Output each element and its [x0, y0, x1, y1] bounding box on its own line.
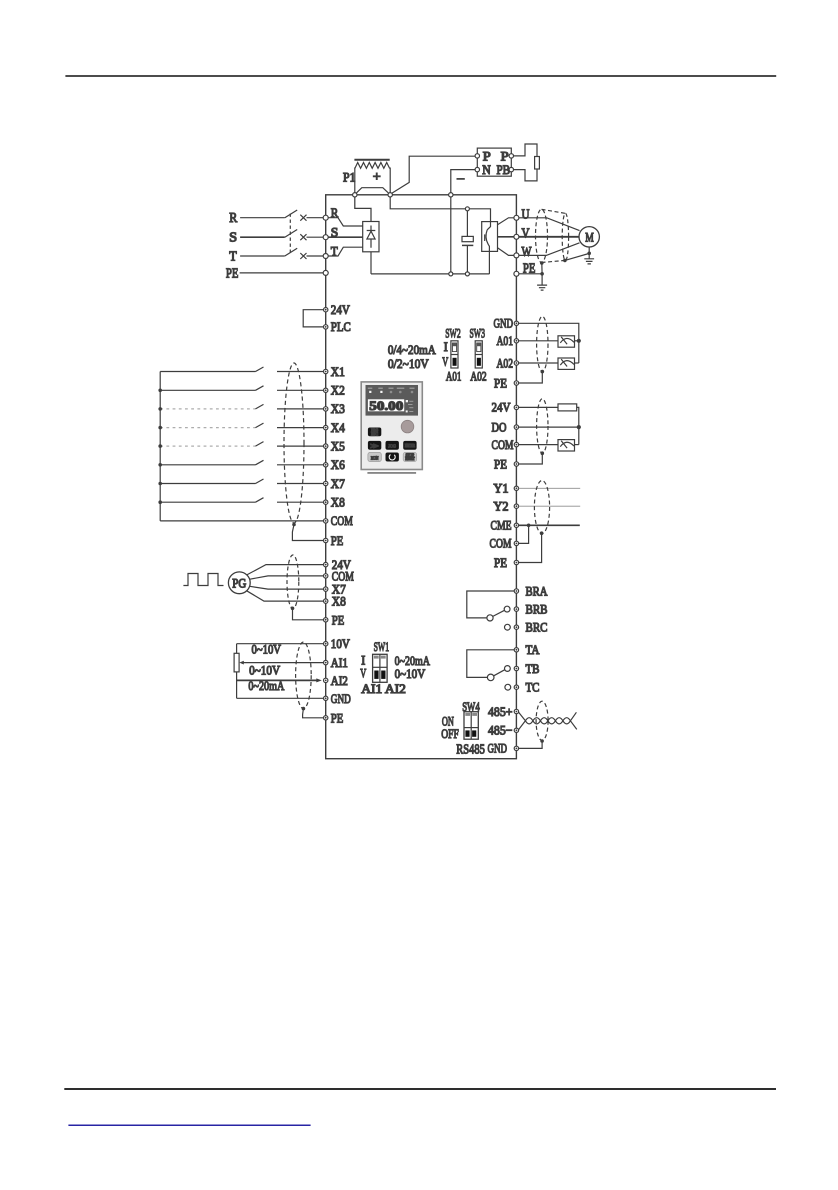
wire PG to X7 [250, 586, 324, 589]
meter DO [558, 440, 575, 451]
svg-text:TA: TA [526, 642, 541, 657]
terminal S [323, 235, 328, 240]
capacitor plate line [462, 244, 473, 246]
fuse mark T [300, 253, 306, 259]
terminal X5 [324, 444, 328, 448]
shield ellipse analog [296, 642, 312, 708]
svg-text:X1: X1 [331, 364, 345, 379]
potentiometer bottom lead [236, 672, 238, 698]
terminal COM right [514, 442, 518, 446]
SW3 DIP body [475, 341, 482, 368]
node P1 on bus [353, 193, 357, 197]
wire CME [519, 524, 580, 526]
header rule [65, 75, 776, 77]
junction motor ground [587, 252, 591, 256]
capacitor plate box [462, 236, 473, 241]
IGBT gate bar [484, 234, 486, 241]
shield ellipse digital inputs [284, 363, 304, 523]
wire X4 faint [160, 427, 255, 429]
svg-text:0~20mA: 0~20mA [248, 678, 284, 693]
relay BR blade [493, 610, 505, 616]
svg-text:I: I [444, 339, 448, 354]
jumper bridge P1-plus [356, 188, 390, 194]
wire T to terminal [307, 255, 324, 257]
label minus [457, 178, 465, 180]
wire AI1 [243, 662, 324, 664]
terminal Y1 [514, 486, 518, 490]
terminal GND left [324, 696, 328, 700]
meter A01 [558, 336, 575, 347]
keypad shift button [368, 441, 381, 450]
shield drain to PE Y outputs [519, 533, 542, 562]
node capacitor on minus bus [465, 272, 469, 276]
brake resistor [535, 157, 540, 170]
svg-text:V: V [522, 226, 530, 241]
svg-text:A02: A02 [470, 368, 487, 383]
svg-text:0~10V: 0~10V [395, 666, 426, 681]
terminal GND right [514, 321, 518, 325]
svg-text:V: V [360, 665, 366, 680]
shield drain dot analog [302, 707, 306, 711]
SW2 DIP body [451, 341, 458, 368]
svg-text:S: S [229, 231, 237, 246]
wire PG to COM [250, 576, 324, 579]
reactor lead plus [389, 168, 391, 193]
svg-text:PE: PE [494, 555, 507, 570]
keypad STOP RESET button [403, 453, 416, 462]
wire A02 to meter [519, 362, 558, 364]
terminal CME [514, 523, 518, 527]
shield drain to PE and ground [541, 263, 543, 285]
terminal PE right2 [514, 381, 518, 385]
relay T fixed contact [505, 684, 511, 690]
keypad JOG button [386, 441, 399, 450]
wire rectifier plus output [355, 197, 371, 222]
svg-text:PG: PG [232, 575, 246, 590]
terminal X2 [324, 388, 328, 392]
rectifier bridge box [363, 222, 379, 252]
wire PG to 24V [247, 565, 324, 575]
wire X6 [160, 460, 323, 465]
shield dashed top link [542, 209, 566, 213]
svg-text:PE: PE [331, 533, 344, 548]
wire W to motor [519, 243, 580, 256]
SW4 DIP body [464, 712, 478, 740]
svg-text:BRA: BRA [526, 583, 548, 598]
SW4 bottom sliders [465, 730, 469, 736]
inverter main enclosure box [326, 195, 517, 759]
twisted pair crossings [525, 718, 570, 724]
svg-text:M: M [585, 230, 594, 245]
breaker blade T [285, 248, 297, 256]
shield drain to PE analog [303, 709, 324, 718]
jumper CME to COM [519, 525, 529, 543]
shield drain to GND 485 [519, 741, 543, 748]
shield ellipse DO group [537, 399, 548, 453]
svg-text:U: U [522, 207, 530, 222]
wire COM to meter [519, 444, 558, 446]
terminal X8 PG [324, 599, 328, 603]
stub meter DO [575, 444, 579, 446]
shield drain dot near motor [563, 259, 567, 263]
wire X3 faint [160, 408, 255, 410]
footer hyperlink underline [68, 1124, 310, 1126]
svg-text:TC: TC [526, 680, 540, 695]
wire S source [240, 236, 285, 238]
terminal AI2 [324, 678, 328, 682]
potentiometer body [234, 653, 239, 672]
potentiometer top lead [236, 644, 238, 654]
svg-text:X6: X6 [331, 457, 345, 472]
svg-text:SW1: SW1 [374, 639, 390, 654]
relay BR wire [467, 591, 514, 618]
terminal 485- [514, 728, 518, 732]
stub meter A01 [575, 340, 579, 342]
svg-text:JOG: JOG [388, 443, 396, 448]
DC reactor P1 winding [355, 163, 390, 169]
svg-text:PB: PB [497, 162, 511, 177]
fuse mark S [300, 234, 306, 240]
svg-text:TB: TB [526, 661, 540, 676]
svg-text:X5: X5 [331, 438, 345, 453]
svg-text:W: W [522, 245, 533, 260]
terminal BRB [514, 607, 518, 611]
svg-text:GND: GND [488, 741, 508, 756]
svg-text:Y2: Y2 [494, 499, 509, 514]
shield drain dot RS485 [540, 739, 544, 743]
wire PG to X8 [247, 591, 324, 601]
terminal X3 [324, 407, 328, 411]
wire Y2 [519, 505, 581, 507]
terminal R [323, 215, 328, 220]
keypad PRG ESC button [368, 428, 381, 437]
breaker blade S [285, 230, 297, 238]
relay T moving contact [505, 666, 511, 672]
keypad operator panel body [361, 382, 422, 470]
wire AI2 [237, 679, 317, 681]
svg-text:ENTER: ENTER [405, 443, 415, 448]
SW4 top cell marks [465, 713, 470, 716]
motor M [579, 227, 599, 247]
svg-text:COM: COM [490, 536, 512, 551]
svg-text:BRB: BRB [526, 601, 548, 616]
svg-text:RS485: RS485 [456, 743, 485, 758]
wire Y1 [519, 487, 581, 489]
terminal BRC [514, 625, 518, 629]
svg-text:≫: ≫ [370, 443, 379, 450]
relay T wire [467, 650, 514, 678]
wire brake resistor to PB [514, 169, 538, 181]
relay BR pivot contact [487, 615, 493, 621]
terminal T [323, 254, 328, 259]
wire GND to meters [519, 323, 579, 363]
wire DO [519, 426, 579, 428]
DC reactor P1 core bar [354, 159, 389, 161]
keypad 7-segment display 50.00 [368, 399, 404, 411]
reactor lead P1 [354, 168, 356, 193]
svg-text:COM: COM [331, 513, 353, 528]
terminal PE right [514, 271, 519, 276]
keypad unit legend [406, 400, 414, 412]
relay T blade [494, 670, 505, 676]
svg-text:24V: 24V [492, 400, 512, 415]
svg-text:AI2: AI2 [331, 673, 348, 688]
svg-text:ESC: ESC [371, 431, 378, 436]
svg-text:PE: PE [494, 456, 507, 471]
capacitor lead top [466, 211, 468, 237]
svg-text:V: V [442, 354, 448, 369]
stub meter A02 [575, 362, 579, 364]
ground symbol below PE [537, 285, 547, 290]
shield drain to PE [292, 525, 323, 541]
node N on minus bus [449, 272, 453, 276]
svg-text:P1: P1 [343, 170, 356, 185]
svg-text:SW3: SW3 [470, 325, 486, 340]
wire R terminal to rectifier [328, 218, 363, 226]
shield drain dot PG [291, 607, 295, 611]
relay T pivot contact [487, 674, 494, 681]
terminal 10V [324, 642, 328, 646]
terminal X7 PG [324, 587, 328, 591]
terminal X1 [324, 369, 328, 373]
motor ground wire [588, 247, 590, 259]
terminal Y2 [514, 504, 518, 508]
SW1 top cell marks [374, 656, 379, 659]
node capacitor top [465, 207, 469, 211]
terminal V [514, 234, 519, 239]
junction DO rail [577, 425, 581, 429]
relay BR fixed contact [505, 624, 511, 630]
terminal block P N P PB [477, 148, 511, 176]
terminal AI1 [324, 660, 328, 664]
terminal BRA [514, 589, 518, 593]
shield ellipse RS485 [536, 701, 548, 740]
terminal PE left control [324, 538, 328, 542]
svg-text:BRC: BRC [526, 620, 548, 635]
wire A01 to meter [519, 340, 558, 342]
svg-text:PLC: PLC [331, 319, 351, 334]
wire V to motor [519, 236, 579, 238]
relay BR moving contact [504, 606, 510, 612]
svg-text:A01: A01 [446, 368, 462, 383]
block terminal P right [509, 154, 513, 158]
load resistor DO [558, 404, 577, 411]
shield drain dot DO group [541, 451, 545, 455]
jumper 24V-PLC [303, 310, 323, 327]
terminal DO [514, 425, 518, 429]
svg-text:PE: PE [331, 710, 344, 725]
keypad knob [401, 420, 414, 433]
terminal PE left [323, 270, 328, 275]
wire R source [240, 217, 285, 219]
block terminal PB right [509, 167, 513, 171]
svg-text:R: R [229, 211, 238, 226]
shield drain to PE PG [293, 608, 324, 620]
svg-text:A01: A01 [497, 333, 514, 348]
twisted pair fork [570, 712, 576, 729]
svg-text:X7: X7 [331, 476, 345, 491]
shield ellipse PG [287, 555, 299, 609]
wire U to motor [519, 218, 580, 231]
pulse train symbol [183, 574, 223, 586]
node N on bus [449, 193, 453, 197]
terminal TC [514, 685, 518, 689]
block terminal P left [475, 154, 479, 158]
wire S terminal to rectifier [328, 236, 363, 238]
wire X2 [160, 386, 323, 391]
wire X1 [160, 367, 323, 372]
shield dashed bottom link [542, 260, 566, 262]
svg-text:485+: 485+ [488, 704, 513, 719]
wire 24V to load resistor [519, 406, 558, 408]
svg-text:485−: 485− [488, 723, 513, 738]
terminal PE PG [324, 618, 328, 622]
svg-text:A02: A02 [497, 355, 514, 370]
svg-text:DO: DO [492, 419, 507, 434]
terminal PE right4 [514, 560, 518, 564]
svg-text:PE: PE [226, 266, 239, 281]
terminal X8 [324, 500, 328, 504]
wire rectifier minus output [370, 252, 372, 274]
terminal PE right3 [514, 462, 518, 466]
svg-text:PE: PE [332, 612, 345, 627]
terminal COM left [324, 519, 328, 523]
SW1 bottom sliders [374, 671, 378, 679]
svg-text:24V: 24V [331, 302, 351, 317]
svg-text:X4: X4 [331, 420, 345, 435]
terminal COM relay [514, 541, 518, 545]
svg-text:Y1: Y1 [494, 481, 509, 496]
breaker linkage dashed [289, 214, 291, 253]
svg-text:CME: CME [491, 518, 512, 533]
wire X5 faint [160, 445, 255, 447]
terminal 24V right [514, 405, 518, 409]
svg-text:0~10V: 0~10V [249, 662, 281, 677]
svg-text:AI1: AI1 [331, 655, 348, 670]
wire X7 [160, 479, 323, 484]
footer rule [64, 1088, 776, 1090]
terminal TA [514, 648, 518, 652]
keypad RUN button [368, 453, 381, 462]
motor ground symbol [584, 259, 594, 264]
wire resistor to DO rail [577, 407, 579, 444]
junction shield PE [540, 272, 544, 276]
wire T source [240, 255, 285, 257]
node plus on bus [388, 193, 392, 197]
wire X8 [160, 498, 323, 503]
block terminal N left [475, 167, 479, 171]
SW1 DIP switch body [373, 654, 388, 682]
junction CME COM [527, 524, 531, 528]
svg-text:RESET: RESET [405, 457, 415, 461]
svg-text:T: T [229, 249, 237, 264]
svg-text:GND: GND [494, 315, 514, 330]
terminal X6 [324, 463, 328, 467]
terminal X4 [324, 425, 328, 429]
keypad rotation button [386, 453, 399, 462]
IGBT switch symbol [486, 222, 491, 252]
wire 10V [237, 643, 324, 645]
svg-text:10V: 10V [331, 636, 351, 651]
potentiometer wiper arrow [239, 661, 244, 665]
wire N drop to minus bus [450, 197, 452, 272]
keypad LEDs [369, 391, 413, 394]
shield drain dot analog outputs [541, 370, 545, 374]
svg-text:N: N [482, 162, 491, 177]
IGBT module box [482, 222, 498, 252]
wire GND [237, 697, 324, 699]
shield drain to PE DO group [519, 453, 543, 464]
wire R to terminal [307, 217, 324, 219]
digital input bus [159, 372, 161, 521]
shield drain dot Y outputs [540, 531, 544, 535]
cable shield ellipse near motor [562, 213, 568, 260]
twisted pair leads [519, 712, 526, 729]
junction GND meter [577, 339, 581, 343]
AI2 arrow into terminal [316, 678, 322, 682]
terminal X7 [324, 481, 328, 485]
svg-text:GND: GND [331, 691, 351, 706]
terminal 485+ [514, 709, 518, 713]
wire PE source [240, 272, 324, 274]
wire IGBT to V [498, 236, 514, 238]
breaker blade R [285, 210, 297, 218]
svg-text:AI1 AI2: AI1 AI2 [361, 681, 406, 696]
svg-text:X8: X8 [331, 495, 345, 510]
terminal GND 485 [514, 746, 518, 750]
terminal PE analog [324, 716, 328, 720]
shield bond wire to motor ground [565, 254, 589, 261]
keypad base line [367, 472, 416, 474]
shield ellipse analog outputs [537, 316, 548, 371]
svg-text:PE: PE [494, 375, 507, 390]
shield ellipse Y outputs [534, 481, 549, 534]
terminal U [514, 215, 519, 220]
svg-text:0~10V: 0~10V [252, 641, 282, 656]
wire plus to terminal P [392, 156, 475, 193]
wire IGBT bottom to minus bus [488, 251, 490, 274]
svg-text:0/2~10V: 0/2~10V [388, 356, 429, 371]
svg-text:+: + [373, 170, 381, 185]
PG encoder [228, 572, 250, 594]
wire PE to shield [519, 273, 542, 275]
rectifier diode symbol [367, 226, 376, 248]
cable shield ellipse near inverter [536, 209, 548, 262]
wire plus feed to IGBT [390, 197, 490, 222]
wire T terminal to rectifier [328, 247, 363, 256]
svg-text:X3: X3 [331, 401, 345, 416]
svg-text:50.00: 50.00 [369, 399, 403, 413]
wire COM [160, 520, 323, 522]
svg-text:RUN: RUN [371, 455, 379, 460]
terminal 24V left [324, 308, 328, 312]
shield drain dot [292, 523, 296, 527]
wire P to brake resistor [514, 144, 538, 157]
terminal COM PG [324, 574, 328, 578]
wire IGBT to W [498, 248, 514, 256]
keypad display area [366, 385, 419, 416]
svg-text:COM: COM [492, 437, 514, 452]
terminal W [514, 253, 519, 258]
terminal A01 [514, 339, 518, 343]
terminal 24V PG [324, 562, 328, 566]
wire N to terminal block [451, 170, 475, 197]
svg-text:X2: X2 [331, 383, 345, 398]
svg-text:OFF: OFF [441, 726, 459, 741]
fuse mark R [300, 215, 306, 221]
capacitor lead bottom [466, 245, 468, 272]
shield drain to PE [519, 372, 543, 383]
